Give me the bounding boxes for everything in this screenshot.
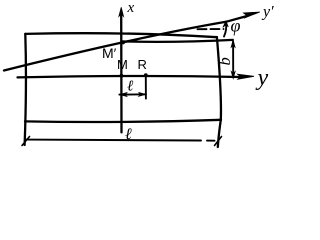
b-dimension bottom arrowhead [231,71,235,79]
angle reference dashed line [198,28,224,30]
e-dimension line [119,93,145,95]
rectangle left edge [25,34,26,145]
point M' dot [121,40,125,44]
svg-text:M: M [117,57,128,72]
horizontal line through M' to b-dimension (line C) [122,40,233,42]
l-dimension line [26,140,215,141]
svg-text:y: y [256,65,269,91]
x axis [120,15,123,133]
angle phi arc [224,22,226,36]
point M dot [120,74,124,78]
e-dimension right arrowhead [139,92,146,96]
l-dimension right arrow tick [215,137,222,146]
point R dot [144,73,148,77]
y' arrowhead [244,12,260,18]
x axis arrowhead [119,7,124,16]
rectangle top edge [25,33,217,37]
angle arc arrowhead [223,21,228,28]
b-dimension top arrowhead [231,40,235,48]
e-dimension left arrowhead [120,93,127,97]
svg-text:y′: y′ [261,4,274,21]
svg-text:ℓ: ℓ [127,79,133,95]
y axis arrowhead [238,74,255,79]
svg-text:M′: M′ [102,45,117,61]
rectangle bottom edge [25,120,221,122]
rectangle right edge (extended to l-dimension) [217,37,221,147]
b-dimension line [232,42,234,78]
l-dimension left arrow tick [22,137,30,146]
svg-text:b: b [215,57,234,65]
y' axis line [4,16,247,71]
svg-text:x: x [127,0,135,16]
svg-text:ℓ: ℓ [125,126,132,143]
y axis [18,76,241,77]
e-dimension extension line under R [145,76,147,99]
svg-text:R: R [138,57,147,72]
svg-text:φ: φ [231,16,241,36]
